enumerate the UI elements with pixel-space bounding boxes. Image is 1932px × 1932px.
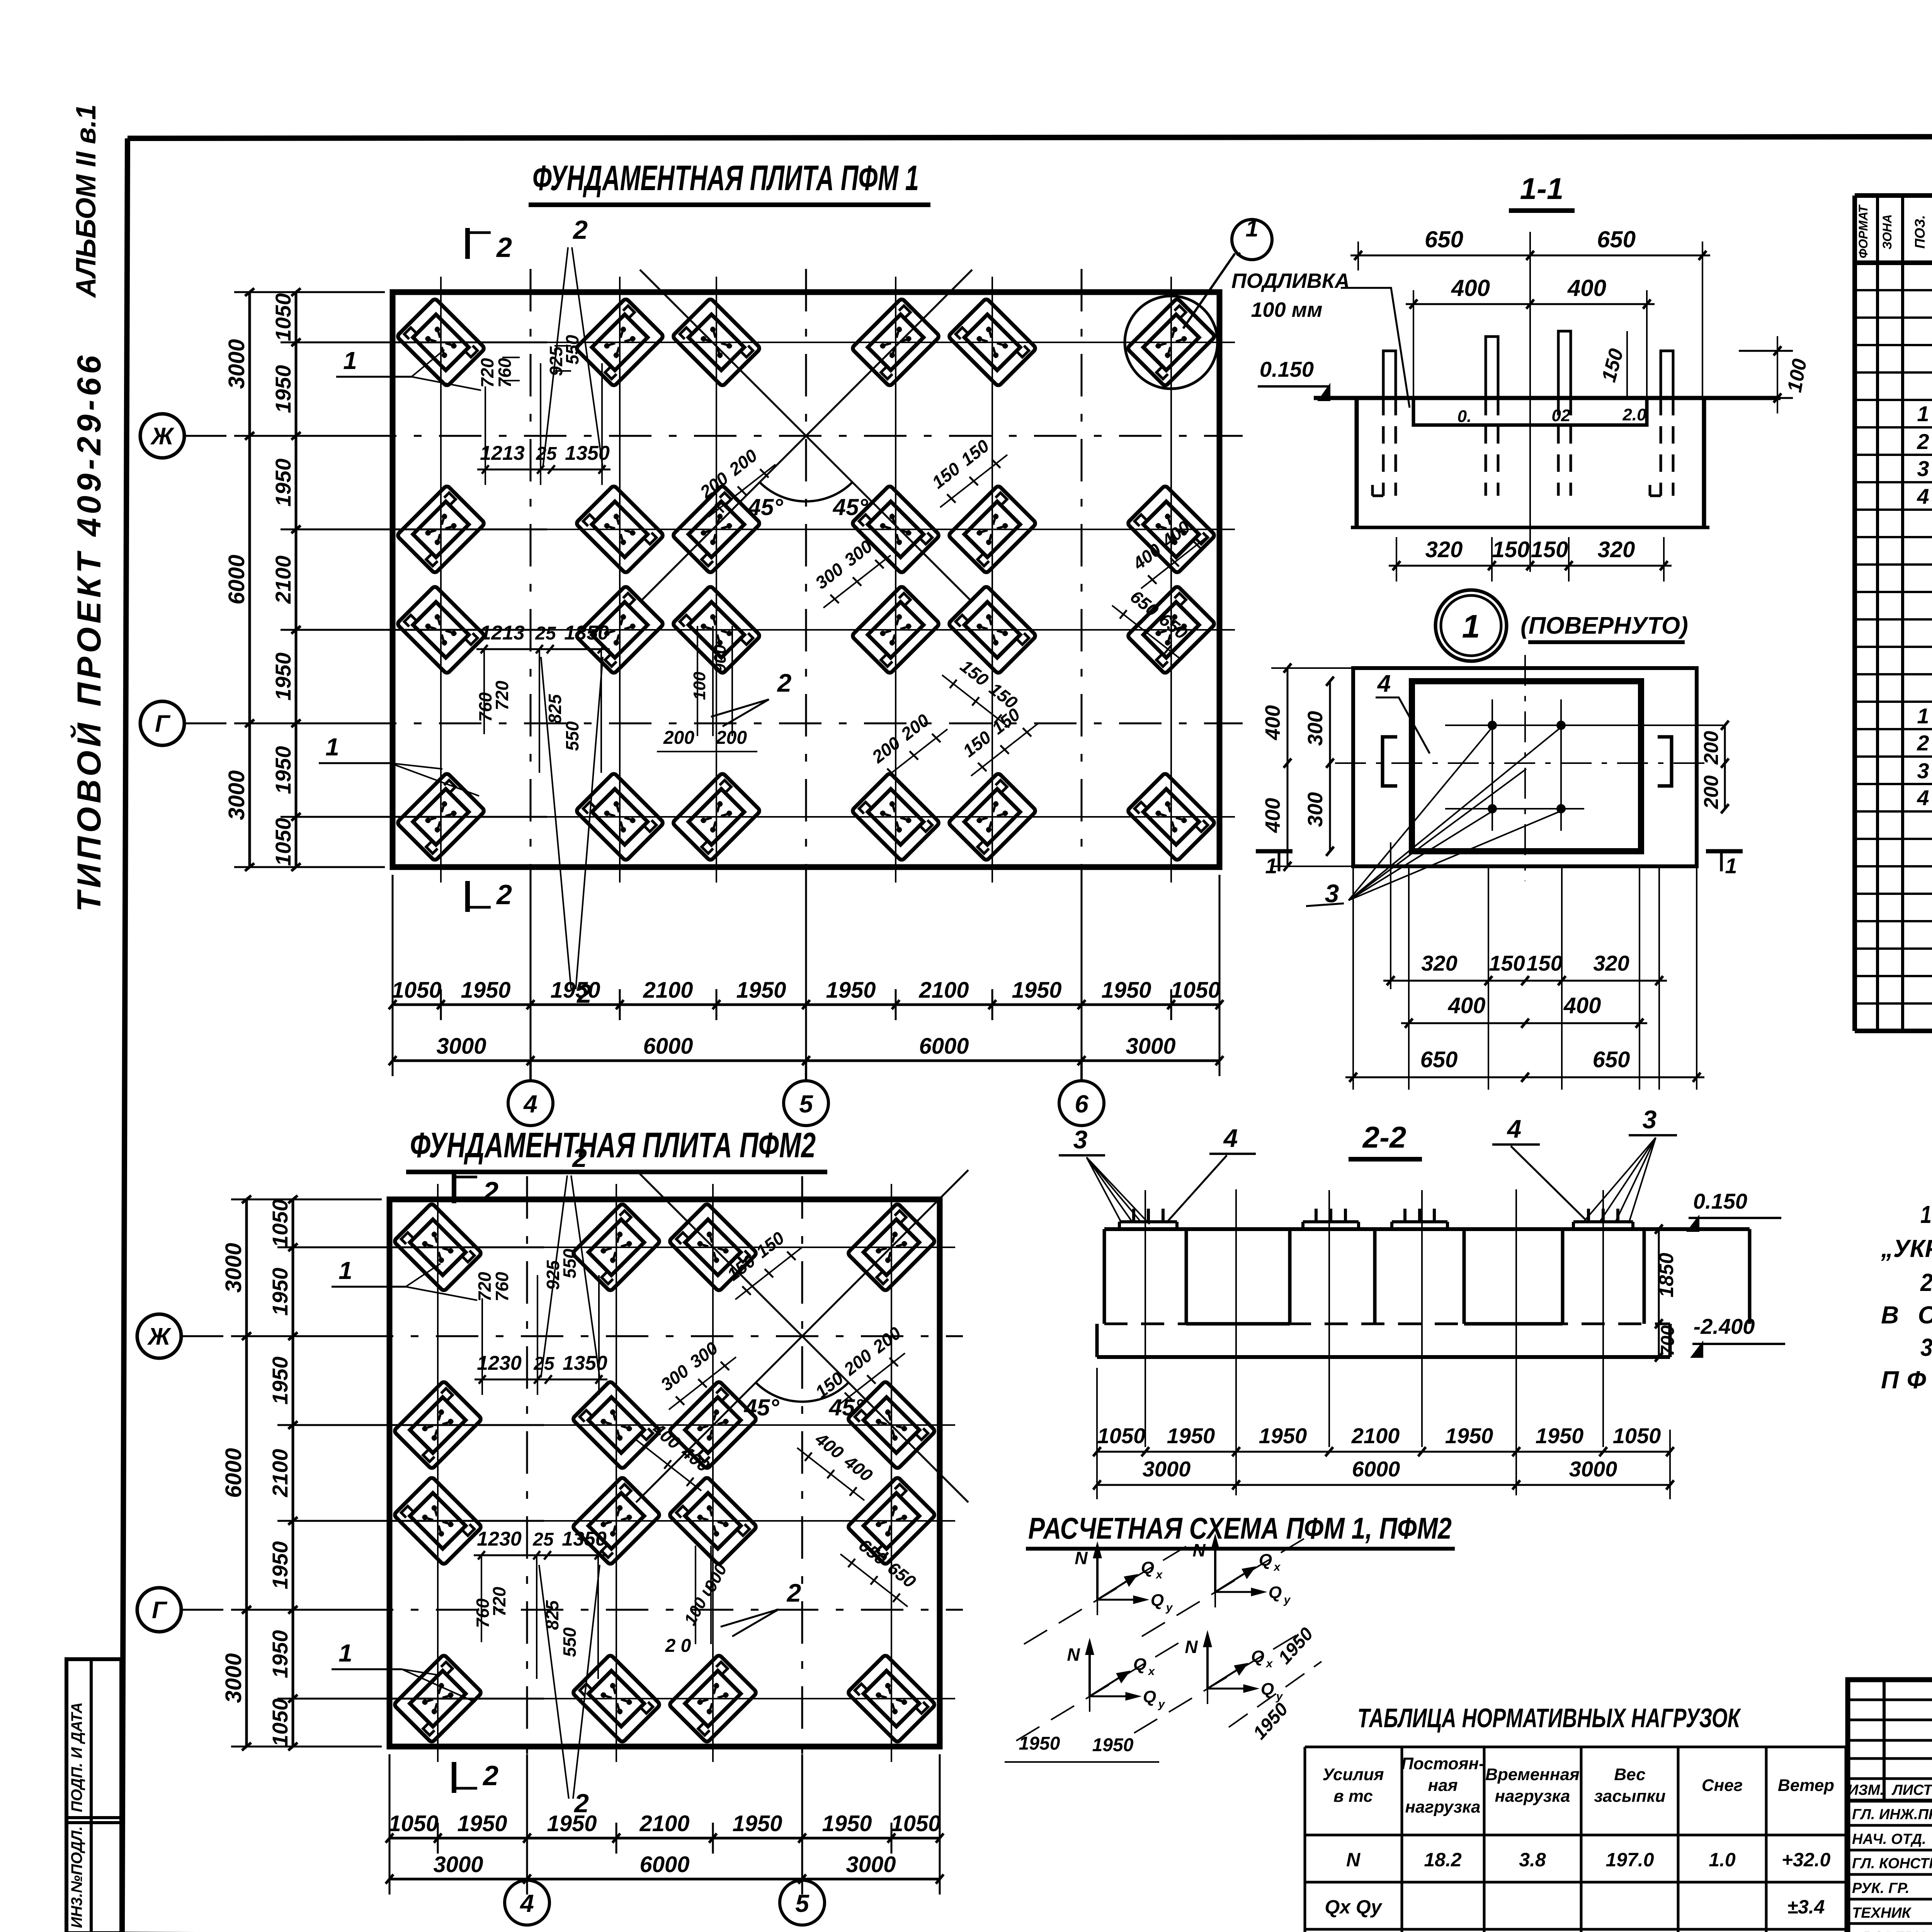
svg-text:1. МАРКИРОВОЧНУЮ СХЕМУ СТАЛ: 1. МАРКИРОВОЧНУЮ СХЕМУ СТАЛЬНЫХ КОЛОНН С… <box>1920 1201 1932 1228</box>
svg-text:1950: 1950 <box>271 365 295 413</box>
pile cap r2c4 <box>851 485 940 573</box>
svg-text:2100: 2100 <box>268 1449 292 1498</box>
svg-text:200: 200 <box>716 728 747 748</box>
svg-text:1050: 1050 <box>271 818 295 866</box>
wire row line <box>377 342 1235 343</box>
axis circle 5 <box>801 1879 803 1880</box>
plan1 mid cluster 900/100/200 <box>697 626 698 736</box>
svg-text:1050: 1050 <box>1613 1423 1661 1448</box>
svg-text:ФОРМАТ: ФОРМАТ <box>1856 204 1870 259</box>
pile cap r3c5 <box>948 585 1036 674</box>
wire col line <box>619 277 621 883</box>
svg-text:нагрузка: нагрузка <box>1495 1787 1570 1806</box>
mini dim ['300', '300'] at 1818,3580 <box>669 1357 736 1410</box>
svg-text:900: 900 <box>711 645 730 673</box>
svg-text:x: x <box>1265 1657 1273 1670</box>
detail inner plate <box>1412 681 1641 851</box>
svg-text:2. МАРКИРОВОЧНУЮ СХЕМУ ФУН: 2. МАРКИРОВОЧНУЮ СХЕМУ ФУНДАМЕНТОВ В ОСЯ… <box>1920 1269 1932 1296</box>
svg-text:45°: 45° <box>833 494 869 520</box>
pile cap r2c1 <box>393 1381 482 1469</box>
svg-text:6000: 6000 <box>643 1034 693 1059</box>
svg-text:1950: 1950 <box>457 1811 507 1836</box>
svg-text:550: 550 <box>560 1627 580 1657</box>
svg-text:2100: 2100 <box>639 1811 689 1836</box>
bottom dimension chain fine <box>393 1003 1219 1006</box>
svg-text:y: y <box>1158 1698 1165 1711</box>
bottom dimension chain fine <box>389 1837 940 1840</box>
2-2 base slab <box>1095 1324 1099 1357</box>
svg-text:2100: 2100 <box>271 556 295 604</box>
title block outer <box>1848 1680 1932 1932</box>
svg-text:1950: 1950 <box>550 978 600 1003</box>
svg-text:1050: 1050 <box>891 1811 940 1836</box>
svg-text:650: 650 <box>1593 1047 1630 1072</box>
wire row line <box>374 1520 955 1522</box>
axis Ж horizontal <box>181 1335 963 1337</box>
left dimension chain coarse <box>245 1199 248 1747</box>
svg-text:1230: 1230 <box>477 1352 522 1374</box>
svg-text:550: 550 <box>560 1248 580 1278</box>
left dims 400 300 <box>1287 668 1289 866</box>
axis Г horizontal <box>184 723 1243 724</box>
svg-text:2-2: 2-2 <box>1362 1120 1406 1154</box>
svg-text:200: 200 <box>1700 731 1723 765</box>
left dimension chain fine <box>292 1199 294 1747</box>
svg-text:3: 3 <box>1073 1125 1088 1154</box>
svg-text:ЛИСТ: ЛИСТ <box>1891 1782 1932 1798</box>
pile cap r4c1 <box>393 1654 482 1743</box>
svg-text:1950: 1950 <box>1445 1423 1493 1448</box>
plate body outline <box>1355 398 1359 527</box>
svg-text:650: 650 <box>1425 226 1463 252</box>
svg-text:1: 1 <box>1462 608 1480 645</box>
section cut mark 2 bottom <box>465 881 470 912</box>
svg-text:25: 25 <box>536 444 557 464</box>
svg-text:300: 300 <box>1304 792 1327 827</box>
section cut mark 2 top <box>465 228 470 259</box>
mini dim ['200', '200'] at 2365,1955 <box>880 729 947 782</box>
svg-text:150: 150 <box>1492 537 1530 562</box>
svg-text:650: 650 <box>1597 226 1636 252</box>
svg-text:N: N <box>1067 1645 1080 1665</box>
pile cap r2c4 <box>847 1381 935 1469</box>
dim 100 right <box>1739 350 1793 352</box>
svg-text:ПОДП. И ДАТА: ПОДП. И ДАТА <box>68 1702 85 1812</box>
svg-text:6000: 6000 <box>919 1034 969 1059</box>
svg-text:Временная: Временная <box>1485 1765 1580 1784</box>
svg-text:3000: 3000 <box>436 1034 486 1059</box>
svg-text:2: 2 <box>1917 429 1929 454</box>
svg-text:засыпки: засыпки <box>1594 1787 1665 1806</box>
pile cap r4c2 <box>572 1654 660 1743</box>
pile cap r1c3 <box>668 1203 757 1291</box>
center lines <box>1335 762 1716 764</box>
svg-text:Ж: Ж <box>150 423 175 450</box>
svg-text:Ж: Ж <box>147 1323 172 1350</box>
axis 6 vertical <box>1081 269 1083 890</box>
svg-text:ЗОНА: ЗОНА <box>1880 214 1894 250</box>
pile cap r1c5 <box>948 298 1036 386</box>
svg-text:в тс: в тс <box>1333 1787 1373 1806</box>
plan2 mid cluster 900/100/200 <box>695 1546 696 1644</box>
svg-text:18.2: 18.2 <box>1424 1849 1462 1871</box>
wire row line <box>377 816 1235 818</box>
specification table <box>1852 196 1857 1031</box>
svg-text:45°: 45° <box>744 1395 780 1420</box>
svg-text:1: 1 <box>325 733 339 761</box>
mini dim ['150', '150'] at 1990,3295 <box>735 1247 803 1299</box>
pile cap r1c4 <box>847 1203 935 1291</box>
svg-text:4: 4 <box>1507 1114 1522 1143</box>
detail callout circle 1 <box>1232 219 1272 260</box>
svg-text:1950: 1950 <box>822 1811 872 1836</box>
svg-text:1950: 1950 <box>268 1357 292 1405</box>
pile cap r4c3 <box>668 1654 757 1743</box>
detail outer plate <box>1353 668 1697 866</box>
pile cap r3c1 <box>393 1476 482 1565</box>
svg-text:760: 760 <box>492 1272 512 1301</box>
anchor bolt at 3861 <box>1486 337 1498 398</box>
svg-text:ГЛ. КОНСТР.: ГЛ. КОНСТР. <box>1852 1855 1932 1872</box>
svg-text:550: 550 <box>562 721 582 751</box>
wire col line <box>712 1184 714 1762</box>
svg-text:3000: 3000 <box>1126 1034 1175 1059</box>
svg-text:1950: 1950 <box>732 1811 782 1836</box>
svg-text:1950: 1950 <box>1259 1423 1307 1448</box>
svg-text:ТИПОВОЙ ПРОЕКТ 409-29-66: ТИПОВОЙ ПРОЕКТ 409-29-66 <box>70 355 108 912</box>
svg-text:нагрузка: нагрузка <box>1405 1798 1480 1816</box>
svg-text:4: 4 <box>1377 670 1391 697</box>
svg-text:400: 400 <box>1261 798 1284 833</box>
svg-text:6000: 6000 <box>224 554 249 604</box>
right dims 1850 700 <box>1658 1229 1660 1357</box>
svg-text:2: 2 <box>496 879 512 910</box>
svg-text:1213: 1213 <box>480 622 525 644</box>
svg-text:1950: 1950 <box>736 978 786 1003</box>
svg-text:ПРОВЕРИЛ: ПРОВЕРИЛ <box>1852 1929 1932 1932</box>
svg-text:320: 320 <box>1593 951 1629 975</box>
2-2 anchor plates <box>1119 1220 1177 1223</box>
svg-text:1050: 1050 <box>268 1699 292 1747</box>
svg-text:3000: 3000 <box>433 1852 483 1877</box>
mini dim ['650', '650'] at 2965,1635 <box>1112 605 1179 658</box>
svg-text:РУК. ГР.: РУК. ГР. <box>1852 1880 1910 1896</box>
svg-text:1050: 1050 <box>1170 978 1220 1003</box>
svg-text:1950: 1950 <box>1019 1733 1060 1754</box>
svg-text:6000: 6000 <box>639 1852 689 1877</box>
pile cap r2c6 <box>1127 485 1215 573</box>
pile cap r2c3 <box>668 1381 757 1469</box>
svg-text:1: 1 <box>343 347 357 374</box>
svg-text:ПФМ2 СМ КЖ-19.: ПФМ2 СМ КЖ-19. <box>1881 1366 1932 1394</box>
svg-text:1050: 1050 <box>271 293 295 342</box>
svg-text:Г: Г <box>152 1597 168 1624</box>
svg-text:700: 700 <box>1658 1325 1678 1356</box>
svg-text:1950: 1950 <box>271 746 295 794</box>
bottom dimension chain coarse <box>393 1060 1219 1062</box>
svg-text:760: 760 <box>495 358 515 388</box>
bottom dims 320 150 150 320 <box>1389 565 1672 567</box>
svg-text:Усилия: Усилия <box>1322 1765 1384 1784</box>
svg-text:4: 4 <box>523 1090 537 1118</box>
2-2 top surface <box>1104 1227 1750 1231</box>
svg-text:3000: 3000 <box>1569 1457 1617 1481</box>
svg-text:320: 320 <box>1425 537 1463 562</box>
svg-text:Q: Q <box>1251 1647 1264 1666</box>
wire col line <box>1170 277 1172 883</box>
svg-text:Q: Q <box>1133 1655 1146 1674</box>
right dims 200 200 <box>1724 725 1726 809</box>
svg-text:ФУНДАМЕНТНАЯ ПЛИТА ПФМ2: ФУНДАМЕНТНАЯ ПЛИТА ПФМ2 <box>410 1126 816 1165</box>
svg-text:400: 400 <box>1451 275 1490 301</box>
anchor bolt at 4049 <box>1558 331 1571 398</box>
svg-text:2: 2 <box>482 1760 498 1791</box>
wire row line <box>377 529 1235 530</box>
svg-text:760: 760 <box>473 1598 493 1628</box>
svg-text:РАСЧЕТНАЯ СХЕМА ПФМ 1, ПФМ2: РАСЧЕТНАЯ СХЕМА ПФМ 1, ПФМ2 <box>1028 1511 1452 1545</box>
svg-text:1950: 1950 <box>1167 1423 1215 1448</box>
pile cap r4c6 <box>1127 772 1215 861</box>
svg-text:650: 650 <box>1420 1047 1458 1072</box>
section marks 1 bottom <box>1256 849 1293 854</box>
svg-text:0.150: 0.150 <box>1693 1189 1747 1213</box>
pile cap r2c2 <box>572 1381 660 1469</box>
svg-text:3000: 3000 <box>1143 1457 1191 1481</box>
axis 5 vertical <box>805 269 807 890</box>
pile cap r1c2 <box>572 1203 660 1291</box>
svg-text:1-1: 1-1 <box>1520 172 1564 206</box>
axis Г horizontal <box>181 1609 963 1611</box>
wire col line <box>992 277 993 883</box>
svg-text:Q: Q <box>1141 1558 1154 1577</box>
svg-text:ИЗМ.: ИЗМ. <box>1848 1782 1884 1798</box>
svg-text:6000: 6000 <box>221 1448 246 1498</box>
pile cap r3c2 <box>575 585 664 674</box>
svg-text:1: 1 <box>338 1257 352 1284</box>
pile cap r3c3 <box>672 585 760 674</box>
svg-text:3000: 3000 <box>224 339 249 389</box>
pile cap r3c6 <box>1127 585 1215 674</box>
svg-text:1950: 1950 <box>271 653 295 701</box>
svg-text:1950: 1950 <box>1012 978 1061 1003</box>
svg-text:400: 400 <box>1563 993 1601 1018</box>
svg-text:ПОДЛИВКА: ПОДЛИВКА <box>1231 269 1350 293</box>
svg-text:1350: 1350 <box>564 622 609 644</box>
svg-text:1: 1 <box>1917 401 1929 426</box>
svg-text:3: 3 <box>1917 456 1929 481</box>
svg-text:N: N <box>1185 1637 1198 1657</box>
svg-text:320: 320 <box>1598 537 1635 562</box>
pile cap r3c4 <box>847 1476 935 1565</box>
force diagram at 2820,4390 <box>1016 1638 1186 1741</box>
axis 4 vertical <box>530 269 532 890</box>
wire row line <box>374 1247 955 1248</box>
svg-text:1950: 1950 <box>547 1811 597 1836</box>
detail bottom dim tier2 <box>1401 1022 1647 1024</box>
section cut mark 2 bottom <box>452 1762 456 1793</box>
svg-text:100 мм: 100 мм <box>1251 298 1323 321</box>
svg-text:0.150: 0.150 <box>1260 357 1314 381</box>
svg-text:3: 3 <box>1643 1105 1657 1134</box>
svg-text:02: 02 <box>1552 406 1571 425</box>
svg-text:45°: 45° <box>748 494 784 520</box>
pile cap r4c3 <box>672 772 760 861</box>
axis 4 vertical <box>526 1176 528 1770</box>
2-2 axis lines <box>1145 1190 1146 1447</box>
svg-text:y: y <box>1283 1594 1291 1606</box>
wire col line <box>440 277 442 883</box>
svg-text:2: 2 <box>786 1578 801 1607</box>
pile cap r1c6 <box>1127 298 1215 386</box>
anchor bolt at 3596 <box>1383 351 1396 398</box>
svg-text:ГЛ. ИНЖ.ПР.: ГЛ. ИНЖ.ПР. <box>1852 1806 1932 1823</box>
svg-text:200: 200 <box>1700 776 1723 810</box>
svg-text:1: 1 <box>338 1639 352 1667</box>
svg-text:ПОЗ.: ПОЗ. <box>1912 215 1928 248</box>
section cut mark 2 top <box>452 1172 456 1203</box>
svg-text:4: 4 <box>1223 1124 1238 1152</box>
pile cap r4c1 <box>396 772 485 861</box>
wire col line <box>716 277 717 883</box>
pile cap r2c2 <box>575 485 664 573</box>
svg-text:2: 2 <box>576 979 592 1009</box>
grout band <box>1413 398 1647 425</box>
svg-text:400: 400 <box>1567 275 1606 301</box>
svg-text:1: 1 <box>1725 854 1737 878</box>
svg-text:4: 4 <box>1917 786 1929 810</box>
svg-text:1950: 1950 <box>271 459 295 507</box>
left stamp table <box>66 1659 121 1932</box>
wire row line <box>377 629 1235 631</box>
svg-text:2: 2 <box>571 1143 587 1173</box>
pile cap r2c5 <box>948 485 1036 573</box>
dim 400-400 <box>1406 303 1655 305</box>
bottom dimension chain coarse <box>389 1878 940 1881</box>
anchor bolt at 4314 <box>1661 351 1673 398</box>
pile cap r1c1 <box>393 1203 482 1291</box>
pile cap r3c3 <box>668 1476 757 1565</box>
wire col line <box>616 1184 617 1762</box>
svg-text:1350: 1350 <box>565 442 610 464</box>
pile cap r3c1 <box>396 585 485 674</box>
svg-text:5: 5 <box>795 1889 810 1917</box>
svg-text:ФУНДАМЕНТНАЯ ПЛИТА ПФМ 1: ФУНДАМЕНТНАЯ ПЛИТА ПФМ 1 <box>532 158 919 198</box>
svg-text:1: 1 <box>1917 704 1929 728</box>
svg-text:1950: 1950 <box>461 978 510 1003</box>
svg-text:150: 150 <box>1489 951 1525 975</box>
axis 5 vertical <box>801 1176 803 1770</box>
svg-text:2100: 2100 <box>643 978 693 1003</box>
svg-text:2: 2 <box>572 215 588 245</box>
svg-text:825: 825 <box>545 694 565 724</box>
svg-text:400: 400 <box>1448 993 1486 1018</box>
svg-text:0.: 0. <box>1458 407 1472 426</box>
pile cap r1c2 <box>575 298 664 386</box>
pile cap r1c1 <box>396 298 485 386</box>
force diagram at 2840,4140 <box>1024 1542 1194 1644</box>
svg-text:Q: Q <box>1143 1687 1156 1706</box>
svg-text:Снег: Снег <box>1702 1776 1743 1795</box>
svg-text:Постоян-: Постоян- <box>1401 1754 1485 1773</box>
svg-text:3. АРМИРОВАНИЕ ФУНДАМЕНТНОЙ: 3. АРМИРОВАНИЕ ФУНДАМЕНТНОЙ ПЛИТЫ ПФМ 1 … <box>1920 1333 1932 1361</box>
svg-text:1950: 1950 <box>268 1541 292 1590</box>
plan PFM2 plate outline <box>389 1199 940 1747</box>
mini dim ['150', '150'] at 2600,1940 <box>971 723 1038 776</box>
svg-text:5: 5 <box>799 1090 813 1118</box>
force diagram at 3125,4370 <box>1134 1631 1304 1733</box>
svg-text:Вес: Вес <box>1614 1765 1645 1784</box>
2-2 bottom chain coarse <box>1097 1484 1670 1486</box>
svg-text:В ОСЯХ 3 7 СМ. КЖ-14.: В ОСЯХ 3 7 СМ. КЖ-14. <box>1881 1301 1932 1329</box>
plan PFM1 plate outline <box>393 292 1219 867</box>
pile cap r4c5 <box>948 772 1036 861</box>
svg-text:N: N <box>1075 1548 1088 1568</box>
svg-text:Ветер: Ветер <box>1778 1776 1834 1795</box>
left dimension chain coarse <box>248 292 251 867</box>
svg-text:4: 4 <box>519 1889 534 1917</box>
svg-text:1950: 1950 <box>1092 1735 1134 1755</box>
pile cap r1c4 <box>851 298 940 386</box>
detail 1 circle title <box>1435 590 1507 661</box>
wire col line <box>891 1184 892 1762</box>
svg-text:НАЧ. ОТД.: НАЧ. ОТД. <box>1852 1831 1926 1847</box>
pile cap r4c4 <box>851 772 940 861</box>
pile cap r3c4 <box>851 585 940 674</box>
svg-text:x: x <box>1148 1665 1155 1678</box>
svg-text:ИН3.№ПОДЛ.: ИН3.№ПОДЛ. <box>68 1826 85 1928</box>
svg-text:6000: 6000 <box>1352 1457 1400 1481</box>
svg-text:ная: ная <box>1428 1776 1458 1795</box>
border frame <box>128 136 1932 138</box>
mini dim ['400', '400'] at 1728,3790 <box>634 1438 701 1491</box>
diagonal construction lines <box>640 270 972 602</box>
left dimension chain fine <box>295 292 298 867</box>
channel left <box>1383 737 1397 786</box>
svg-text:1230: 1230 <box>477 1528 522 1550</box>
mini dim ['650', '650'] at 2262,4090 <box>840 1554 908 1607</box>
svg-text:N: N <box>1192 1540 1206 1560</box>
axis circle 5 <box>805 1061 807 1081</box>
svg-text:2: 2 <box>496 232 512 263</box>
svg-text:1050: 1050 <box>391 978 441 1003</box>
svg-text:1: 1 <box>1245 216 1258 241</box>
svg-text:3000: 3000 <box>846 1852 896 1877</box>
svg-text:1050: 1050 <box>388 1811 438 1836</box>
mini dim ['400', '400'] at 3040,1455 <box>1141 536 1208 588</box>
svg-text:„УКРПРОЕКТСТАЛЬКОНСТРУКЦИЯ: „УКРПРОЕКТСТАЛЬКОНСТРУКЦИЯ Г. КИЕВ . <box>1881 1235 1932 1262</box>
dim 150 vertical <box>1626 331 1628 398</box>
svg-text:150: 150 <box>1531 537 1568 562</box>
svg-text:1950: 1950 <box>268 1630 292 1679</box>
wire col line <box>437 1184 439 1762</box>
svg-text:Q: Q <box>1151 1591 1164 1610</box>
pile cap r3c2 <box>572 1476 660 1565</box>
svg-text:320: 320 <box>1421 951 1457 975</box>
svg-text:2.0: 2.0 <box>1622 405 1646 424</box>
2-2 bottom chain fine <box>1097 1451 1670 1453</box>
pile cap r4c2 <box>575 772 664 861</box>
svg-text:300: 300 <box>1304 711 1327 746</box>
svg-text:ТАБЛИЦА НОРМАТИВНЫХ НАГРУ: ТАБЛИЦА НОРМАТИВНЫХ НАГРУЗОК <box>1357 1703 1742 1733</box>
svg-text:3000: 3000 <box>224 770 249 820</box>
svg-text:1950: 1950 <box>1536 1423 1584 1448</box>
force diagram at 3145,4120 <box>1142 1534 1312 1636</box>
mini dim ['200', '200'] at 1920,1270 <box>708 464 776 517</box>
svg-text:N: N <box>1346 1849 1361 1871</box>
svg-text:3.8: 3.8 <box>1519 1849 1546 1871</box>
pile cap r2c3 <box>672 485 760 573</box>
svg-text:2 0: 2 0 <box>665 1636 691 1656</box>
